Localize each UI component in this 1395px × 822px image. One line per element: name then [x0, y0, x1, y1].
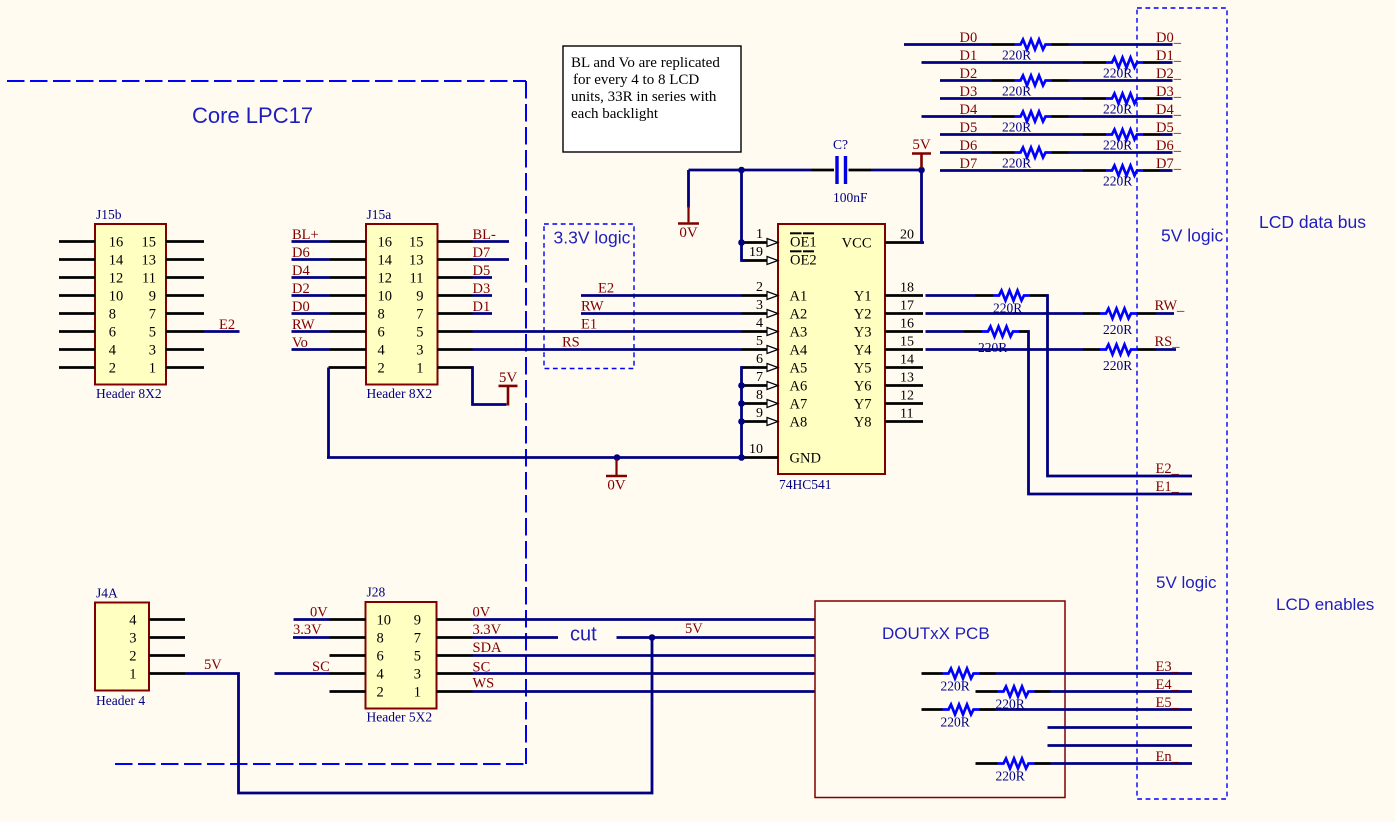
svg-text:D5_: D5_	[1156, 120, 1182, 136]
wire D2 (left)	[940, 79, 992, 82]
svg-text:D5: D5	[960, 120, 978, 136]
wire Vo (J15a left)	[292, 348, 331, 351]
svg-text:WS: WS	[473, 676, 495, 692]
wire 3.3V cut segment	[473, 636, 559, 639]
wire E5 resistor leads	[922, 708, 943, 711]
svg-text:15: 15	[142, 235, 157, 251]
pin 14 Y5 74HC541	[885, 366, 923, 369]
svg-text:7: 7	[756, 370, 763, 385]
svg-text:E2_: E2_	[1156, 461, 1180, 477]
wire D0 (left)	[904, 43, 992, 46]
resistor En 220R	[998, 759, 1035, 769]
svg-text:4: 4	[377, 667, 385, 683]
junction at A7	[738, 400, 745, 407]
dotted box 5V logic	[1137, 8, 1227, 799]
pin 19 OE2 74HC541	[742, 259, 768, 262]
svg-text:5V: 5V	[499, 370, 518, 386]
svg-text:Y4: Y4	[854, 343, 872, 359]
svg-text:220R: 220R	[1103, 66, 1132, 81]
svg-text:3: 3	[414, 667, 421, 683]
svg-text:16: 16	[900, 317, 914, 332]
svg-text:E1: E1	[581, 317, 597, 333]
svg-text:15: 15	[409, 235, 424, 251]
connector J15b body	[95, 224, 166, 385]
wire D7 (J15a right)	[473, 258, 510, 261]
block DOUTxX PCB	[815, 601, 1065, 798]
note box: BL and Vo are replicated	[563, 46, 741, 152]
svg-text:Header 5X2: Header 5X2	[367, 710, 433, 725]
svg-text:SDA: SDA	[473, 640, 503, 656]
svg-text:4: 4	[756, 316, 763, 331]
svg-text:VCC: VCC	[842, 236, 872, 252]
resistor RD6 220R	[1015, 148, 1052, 158]
wire Y1 to resistor	[926, 294, 976, 297]
pin 10 GND 74HC541	[742, 456, 768, 459]
wire capacitor right lead	[849, 169, 872, 172]
svg-text:3: 3	[149, 343, 156, 359]
wire J15a pin2 to GND rail	[329, 366, 367, 369]
svg-text:D2_: D2_	[1156, 66, 1182, 82]
svg-text:J28: J28	[367, 585, 386, 600]
pin 12 Y7 74HC541	[885, 402, 923, 405]
svg-text:Y8: Y8	[854, 415, 872, 431]
svg-text:12: 12	[900, 389, 914, 404]
wire BL+ (J15a left)	[292, 240, 331, 243]
wire D3 (left)	[940, 97, 1083, 100]
svg-text:En_: En_	[1156, 749, 1180, 765]
svg-text:Y3: Y3	[854, 325, 872, 341]
svg-text:8: 8	[756, 388, 763, 403]
svg-text:A4: A4	[790, 343, 808, 359]
svg-text:5V logic: 5V logic	[1161, 226, 1224, 246]
svg-text:12: 12	[109, 271, 124, 287]
wire D4 (J15a left)	[292, 276, 331, 279]
wire BL- (J15a right)	[473, 240, 510, 243]
svg-text:220R: 220R	[1002, 156, 1031, 171]
junction at A6	[738, 382, 745, 389]
svg-text:Core LPC17: Core LPC17	[192, 103, 313, 128]
svg-text:9: 9	[756, 406, 763, 421]
wire SC (J28 left)	[275, 672, 330, 675]
svg-text:D6: D6	[960, 138, 978, 154]
dashed region boundary Core LPC17 (bottom)	[115, 763, 526, 765]
svg-text:D7: D7	[473, 245, 491, 261]
pin 18 Y1 74HC541	[885, 294, 923, 297]
svg-text:E1_: E1_	[1156, 479, 1180, 495]
svg-text:D7_: D7_	[1156, 156, 1182, 172]
svg-text:6: 6	[378, 325, 385, 341]
svg-text:A7: A7	[790, 397, 808, 413]
svg-text:11: 11	[900, 407, 913, 422]
wire D6 (right)	[1052, 151, 1069, 154]
svg-text:14: 14	[900, 353, 914, 368]
svg-text:14: 14	[109, 253, 124, 269]
pin 20 VCC 74HC541	[885, 241, 923, 244]
svg-text:A2: A2	[790, 307, 808, 323]
pin 7 A6 74HC541	[742, 384, 768, 387]
wire D1 (right)	[1143, 61, 1160, 64]
wire 0V to capacitor C?	[689, 169, 744, 172]
svg-text:RW_: RW_	[1155, 298, 1186, 314]
svg-text:E2: E2	[219, 317, 235, 333]
svg-text:A6: A6	[790, 379, 808, 395]
svg-text:1: 1	[756, 227, 763, 242]
svg-text:7: 7	[416, 307, 423, 323]
wire SC (J28 to DOUT)	[473, 672, 816, 675]
svg-text:Y6: Y6	[854, 379, 872, 395]
svg-text:74HC541: 74HC541	[779, 477, 832, 492]
svg-text:11: 11	[142, 271, 156, 287]
svg-text:220R: 220R	[941, 715, 970, 730]
wire D6 (left)	[940, 151, 992, 154]
resistor Y3 220R	[982, 327, 1019, 337]
svg-text:5: 5	[414, 649, 421, 665]
svg-text:Y5: Y5	[854, 361, 872, 377]
wire capacitor left lead	[742, 169, 812, 172]
svg-text:J15a: J15a	[367, 207, 392, 222]
wire E2_ vertical drop	[1046, 296, 1192, 477]
svg-text:10: 10	[377, 613, 392, 629]
pin 11 Y8 74HC541	[885, 420, 923, 423]
svg-text:J4A: J4A	[96, 586, 118, 601]
svg-text:220R: 220R	[941, 679, 970, 694]
wire LCD enable (unlabelled)	[1048, 726, 1193, 729]
svg-text:GND: GND	[790, 451, 821, 467]
wire E1 to 74HC541	[473, 330, 742, 333]
pin 15 Y4 74HC541	[885, 348, 923, 351]
resistor RD5 220R	[1106, 130, 1143, 140]
svg-text:220R: 220R	[978, 340, 1007, 355]
wire Y2 to resistor	[926, 312, 1084, 315]
svg-text:220R: 220R	[1103, 358, 1132, 373]
svg-text:5: 5	[756, 334, 763, 349]
svg-text:cut: cut	[570, 624, 597, 646]
svg-text:10: 10	[109, 289, 124, 305]
pin 13 Y6 74HC541	[885, 384, 923, 387]
svg-text:2: 2	[756, 280, 763, 295]
svg-text:D2: D2	[960, 66, 978, 82]
wire 0V (J28 left)	[294, 618, 330, 621]
svg-text:D4: D4	[292, 263, 310, 279]
svg-text:13: 13	[900, 371, 914, 386]
svg-text:5: 5	[149, 325, 156, 341]
wire D2 (right)	[1052, 79, 1069, 82]
resistor RD0 220R	[1015, 40, 1052, 50]
svg-text:220R: 220R	[1103, 138, 1132, 153]
wire RS to 74HC541	[473, 348, 742, 351]
svg-text:10: 10	[749, 442, 763, 457]
wire D5 (left)	[940, 133, 1083, 136]
junction at OE1	[738, 239, 745, 246]
ground 0V (GND rail)	[614, 454, 621, 461]
svg-text:0V: 0V	[679, 225, 698, 241]
svg-text:Header 4: Header 4	[96, 693, 145, 708]
svg-text:3: 3	[129, 631, 136, 647]
resistor Y4 220R	[1100, 345, 1137, 355]
wire RS_ stub	[1137, 348, 1156, 351]
svg-text:D1_: D1_	[1156, 48, 1182, 64]
svg-text:RS: RS	[562, 335, 580, 351]
junction at 5V feed	[649, 634, 656, 641]
wire E1_ vertical drop	[1027, 332, 1192, 495]
svg-text:3.3V logic: 3.3V logic	[554, 228, 631, 248]
ground 0V (capacitor)	[687, 170, 690, 208]
svg-text:18: 18	[900, 281, 914, 296]
IC U1 74HC541 body	[778, 224, 885, 474]
wire E3_	[980, 672, 996, 675]
svg-text:10: 10	[378, 289, 393, 305]
resistor E4 220R	[998, 687, 1035, 697]
resistor RD1 220R	[1106, 58, 1143, 68]
pin 2 A1 74HC541	[742, 294, 768, 297]
svg-text:16: 16	[378, 235, 393, 251]
svg-text:Y1: Y1	[854, 289, 872, 305]
wire RW_ stub	[1137, 312, 1156, 315]
resistor E5 220R	[943, 705, 980, 715]
wire E4_	[1035, 690, 1051, 693]
svg-text:D1: D1	[473, 299, 491, 315]
wire D3 (J15a right)	[473, 294, 493, 297]
wire 0V (J28 to DOUT)	[473, 618, 816, 621]
pin 8 A7 74HC541	[742, 402, 768, 405]
power symbol 5V (VCC)	[920, 154, 923, 168]
svg-text:D2: D2	[292, 281, 310, 297]
pin 1 OE1 74HC541	[742, 241, 768, 244]
wire D2 (J15a left)	[292, 294, 331, 297]
svg-text:2: 2	[129, 649, 136, 665]
svg-text:4: 4	[109, 343, 117, 359]
svg-text:0V: 0V	[607, 478, 626, 494]
svg-text:RS_: RS_	[1155, 334, 1181, 350]
svg-text:D4: D4	[960, 102, 978, 118]
svg-text:7: 7	[414, 631, 421, 647]
svg-text:6: 6	[377, 649, 384, 665]
svg-text:5V logic: 5V logic	[1156, 573, 1217, 592]
wire E5_	[980, 708, 996, 711]
svg-text:1: 1	[416, 361, 423, 377]
svg-text:4: 4	[129, 613, 137, 629]
svg-text:1: 1	[414, 685, 421, 701]
pin 5 A4 74HC541	[742, 348, 768, 351]
connector J4A body	[95, 603, 149, 691]
dotted box 3.3V logic	[544, 224, 634, 369]
svg-text:17: 17	[900, 299, 914, 314]
svg-text:OE2: OE2	[790, 253, 817, 269]
wire Y1 resistor to E2_ drop	[1030, 294, 1048, 297]
wire J4A pin1 5V feed	[185, 639, 652, 793]
svg-text:BL+: BL+	[292, 227, 319, 243]
svg-text:A8: A8	[790, 415, 808, 431]
wire 3.3V (J28 left)	[293, 636, 330, 639]
svg-text:13: 13	[142, 253, 157, 269]
svg-text:8: 8	[378, 307, 385, 323]
svg-text:5V: 5V	[912, 137, 931, 153]
wire E3 resistor leads	[922, 672, 943, 675]
wire E2 (J15b pin 5)	[204, 330, 240, 333]
wire E4 resistor leads	[976, 690, 998, 693]
connector J15a body	[366, 224, 438, 385]
wire Y3 to resistor	[926, 330, 965, 333]
resistor RD4 220R	[1015, 112, 1052, 122]
svg-text:D6_: D6_	[1156, 138, 1182, 154]
svg-text:A3: A3	[790, 325, 808, 341]
svg-text:D3: D3	[960, 84, 978, 100]
svg-text:220R: 220R	[996, 769, 1025, 784]
resistor E3 220R	[943, 669, 980, 679]
pin 4 A3 74HC541	[742, 330, 768, 333]
svg-text:220R: 220R	[1103, 174, 1132, 189]
svg-text:5V: 5V	[204, 657, 222, 673]
svg-text:9: 9	[149, 289, 156, 305]
svg-text:0V: 0V	[310, 605, 328, 621]
wire D0 (J15a left)	[292, 312, 331, 315]
pin 16 Y3 74HC541	[885, 330, 923, 333]
svg-text:2: 2	[378, 361, 385, 377]
wire E2 to 74HC541	[581, 294, 742, 297]
connector J28 body	[366, 602, 437, 709]
svg-text:3.3V: 3.3V	[293, 622, 322, 638]
wire Y4 to resistor	[926, 348, 1084, 351]
wire LCD enable (unlabelled)	[1048, 744, 1193, 747]
svg-text:20: 20	[900, 228, 914, 243]
svg-text:D1: D1	[960, 48, 978, 64]
svg-text:3: 3	[756, 298, 763, 313]
svg-text:2: 2	[109, 361, 116, 377]
wire D5 (right)	[1143, 133, 1160, 136]
svg-text:RW: RW	[581, 299, 604, 315]
wire GND rail (J15a pin2 to 74HC541 GND)	[327, 456, 742, 459]
wire D3 (right)	[1143, 97, 1160, 100]
resistor RD3 220R	[1106, 94, 1143, 104]
wire D7 (left)	[940, 169, 1083, 172]
svg-text:8: 8	[109, 307, 116, 323]
wire D7 (right)	[1143, 169, 1160, 172]
svg-text:OE1: OE1	[790, 235, 817, 251]
svg-text:E2: E2	[598, 281, 614, 297]
junction at decoupling node	[738, 167, 745, 174]
svg-text:16: 16	[109, 235, 124, 251]
svg-text:9: 9	[414, 613, 421, 629]
svg-text:220R: 220R	[1002, 120, 1031, 135]
svg-text:C?: C?	[833, 137, 848, 152]
junction at 5V node	[918, 167, 925, 174]
capacitor C1 plates	[835, 156, 838, 184]
svg-text:12: 12	[378, 271, 393, 287]
svg-text:J15b: J15b	[96, 207, 122, 222]
svg-text:220R: 220R	[1103, 102, 1132, 117]
svg-text:LCD enables: LCD enables	[1276, 595, 1374, 614]
resistor RD2 220R	[1015, 76, 1052, 86]
wire D6 (J15a left)	[292, 258, 331, 261]
pin 3 A2 74HC541	[742, 312, 768, 315]
resistor RD7 220R	[1106, 166, 1143, 176]
svg-text:15: 15	[900, 335, 914, 350]
svg-text:D5: D5	[473, 263, 491, 279]
svg-text:LCD data bus: LCD data bus	[1259, 212, 1366, 232]
svg-text:D0_: D0_	[1156, 30, 1182, 46]
svg-text:Y2: Y2	[854, 307, 872, 323]
svg-text:Vo: Vo	[292, 335, 308, 351]
svg-text:4: 4	[378, 343, 386, 359]
svg-text:6: 6	[756, 352, 763, 367]
svg-text:1: 1	[129, 667, 136, 683]
svg-text:D3_: D3_	[1156, 84, 1182, 100]
pin 9 A8 74HC541	[742, 420, 768, 423]
dashed region boundary Core LPC17 (right vertical)	[525, 81, 527, 764]
wire 5V to VCC	[922, 170, 925, 243]
svg-text:5V: 5V	[685, 621, 703, 637]
wire A5-A8 tie to GND rail	[742, 368, 745, 458]
wire J15a pin1 to 5V	[471, 368, 507, 405]
svg-text:SC: SC	[312, 659, 330, 675]
svg-text:100nF: 100nF	[833, 190, 868, 205]
wire RW to 74HC541	[581, 312, 742, 315]
wire RW (J15a left)	[292, 330, 331, 333]
svg-text:13: 13	[409, 253, 424, 269]
svg-text:D4_: D4_	[1156, 102, 1182, 118]
wire D4 (left)	[922, 115, 992, 118]
power symbol 5V (J15a pin1)	[507, 387, 510, 406]
svg-text:6: 6	[109, 325, 116, 341]
svg-text:E5_: E5_	[1156, 695, 1180, 711]
junction at A8	[738, 418, 745, 425]
svg-text:2: 2	[377, 685, 384, 701]
wire 5V to DOUT	[617, 636, 816, 639]
dashed region boundary Core LPC17 (top)	[7, 80, 526, 82]
svg-text:BL-: BL-	[473, 227, 497, 243]
svg-text:3: 3	[416, 343, 423, 359]
resistor Y2 220R	[1100, 309, 1137, 319]
svg-text:E4_: E4_	[1156, 677, 1180, 693]
pin 6 A5 74HC541	[742, 366, 768, 369]
svg-text:D6: D6	[292, 245, 310, 261]
svg-text:D7: D7	[960, 156, 978, 172]
svg-text:14: 14	[378, 253, 393, 269]
svg-text:DOUTxX PCB: DOUTxX PCB	[882, 624, 990, 643]
svg-text:0V: 0V	[473, 605, 491, 621]
svg-text:Header 8X2: Header 8X2	[367, 386, 433, 401]
svg-text:5: 5	[416, 325, 423, 341]
wire Y3 resistor to E1_ drop	[1019, 330, 1029, 333]
wire D4 (right)	[1052, 115, 1069, 118]
svg-text:220R: 220R	[1103, 322, 1132, 337]
wire SDA (J28 to DOUT)	[473, 654, 816, 657]
svg-text:D0: D0	[292, 299, 310, 315]
svg-text:9: 9	[416, 289, 423, 305]
svg-text:220R: 220R	[1002, 48, 1031, 63]
svg-text:8: 8	[377, 631, 384, 647]
wire WS (J28 to DOUT)	[473, 690, 816, 693]
svg-text:Header 8X2: Header 8X2	[96, 386, 162, 401]
pin 17 Y2 74HC541	[885, 312, 923, 315]
svg-text:7: 7	[149, 307, 156, 323]
svg-text:RW: RW	[292, 317, 315, 333]
wire En resistor leads	[976, 762, 998, 765]
svg-text:1: 1	[149, 361, 156, 377]
svg-text:A1: A1	[790, 289, 808, 305]
svg-text:3.3V: 3.3V	[473, 622, 502, 638]
svg-text:SC: SC	[473, 660, 491, 676]
svg-text:Y7: Y7	[854, 397, 872, 413]
svg-text:D0: D0	[960, 30, 978, 46]
svg-text:E3_: E3_	[1156, 659, 1180, 675]
svg-text:D3: D3	[473, 281, 491, 297]
wire D1 (J15a right)	[473, 312, 493, 315]
wire OE1/OE2 tie to decoupling node	[742, 170, 747, 261]
resistor Y1 220R	[993, 291, 1030, 301]
svg-text:19: 19	[749, 245, 763, 260]
wire D0 (right)	[1052, 43, 1069, 46]
